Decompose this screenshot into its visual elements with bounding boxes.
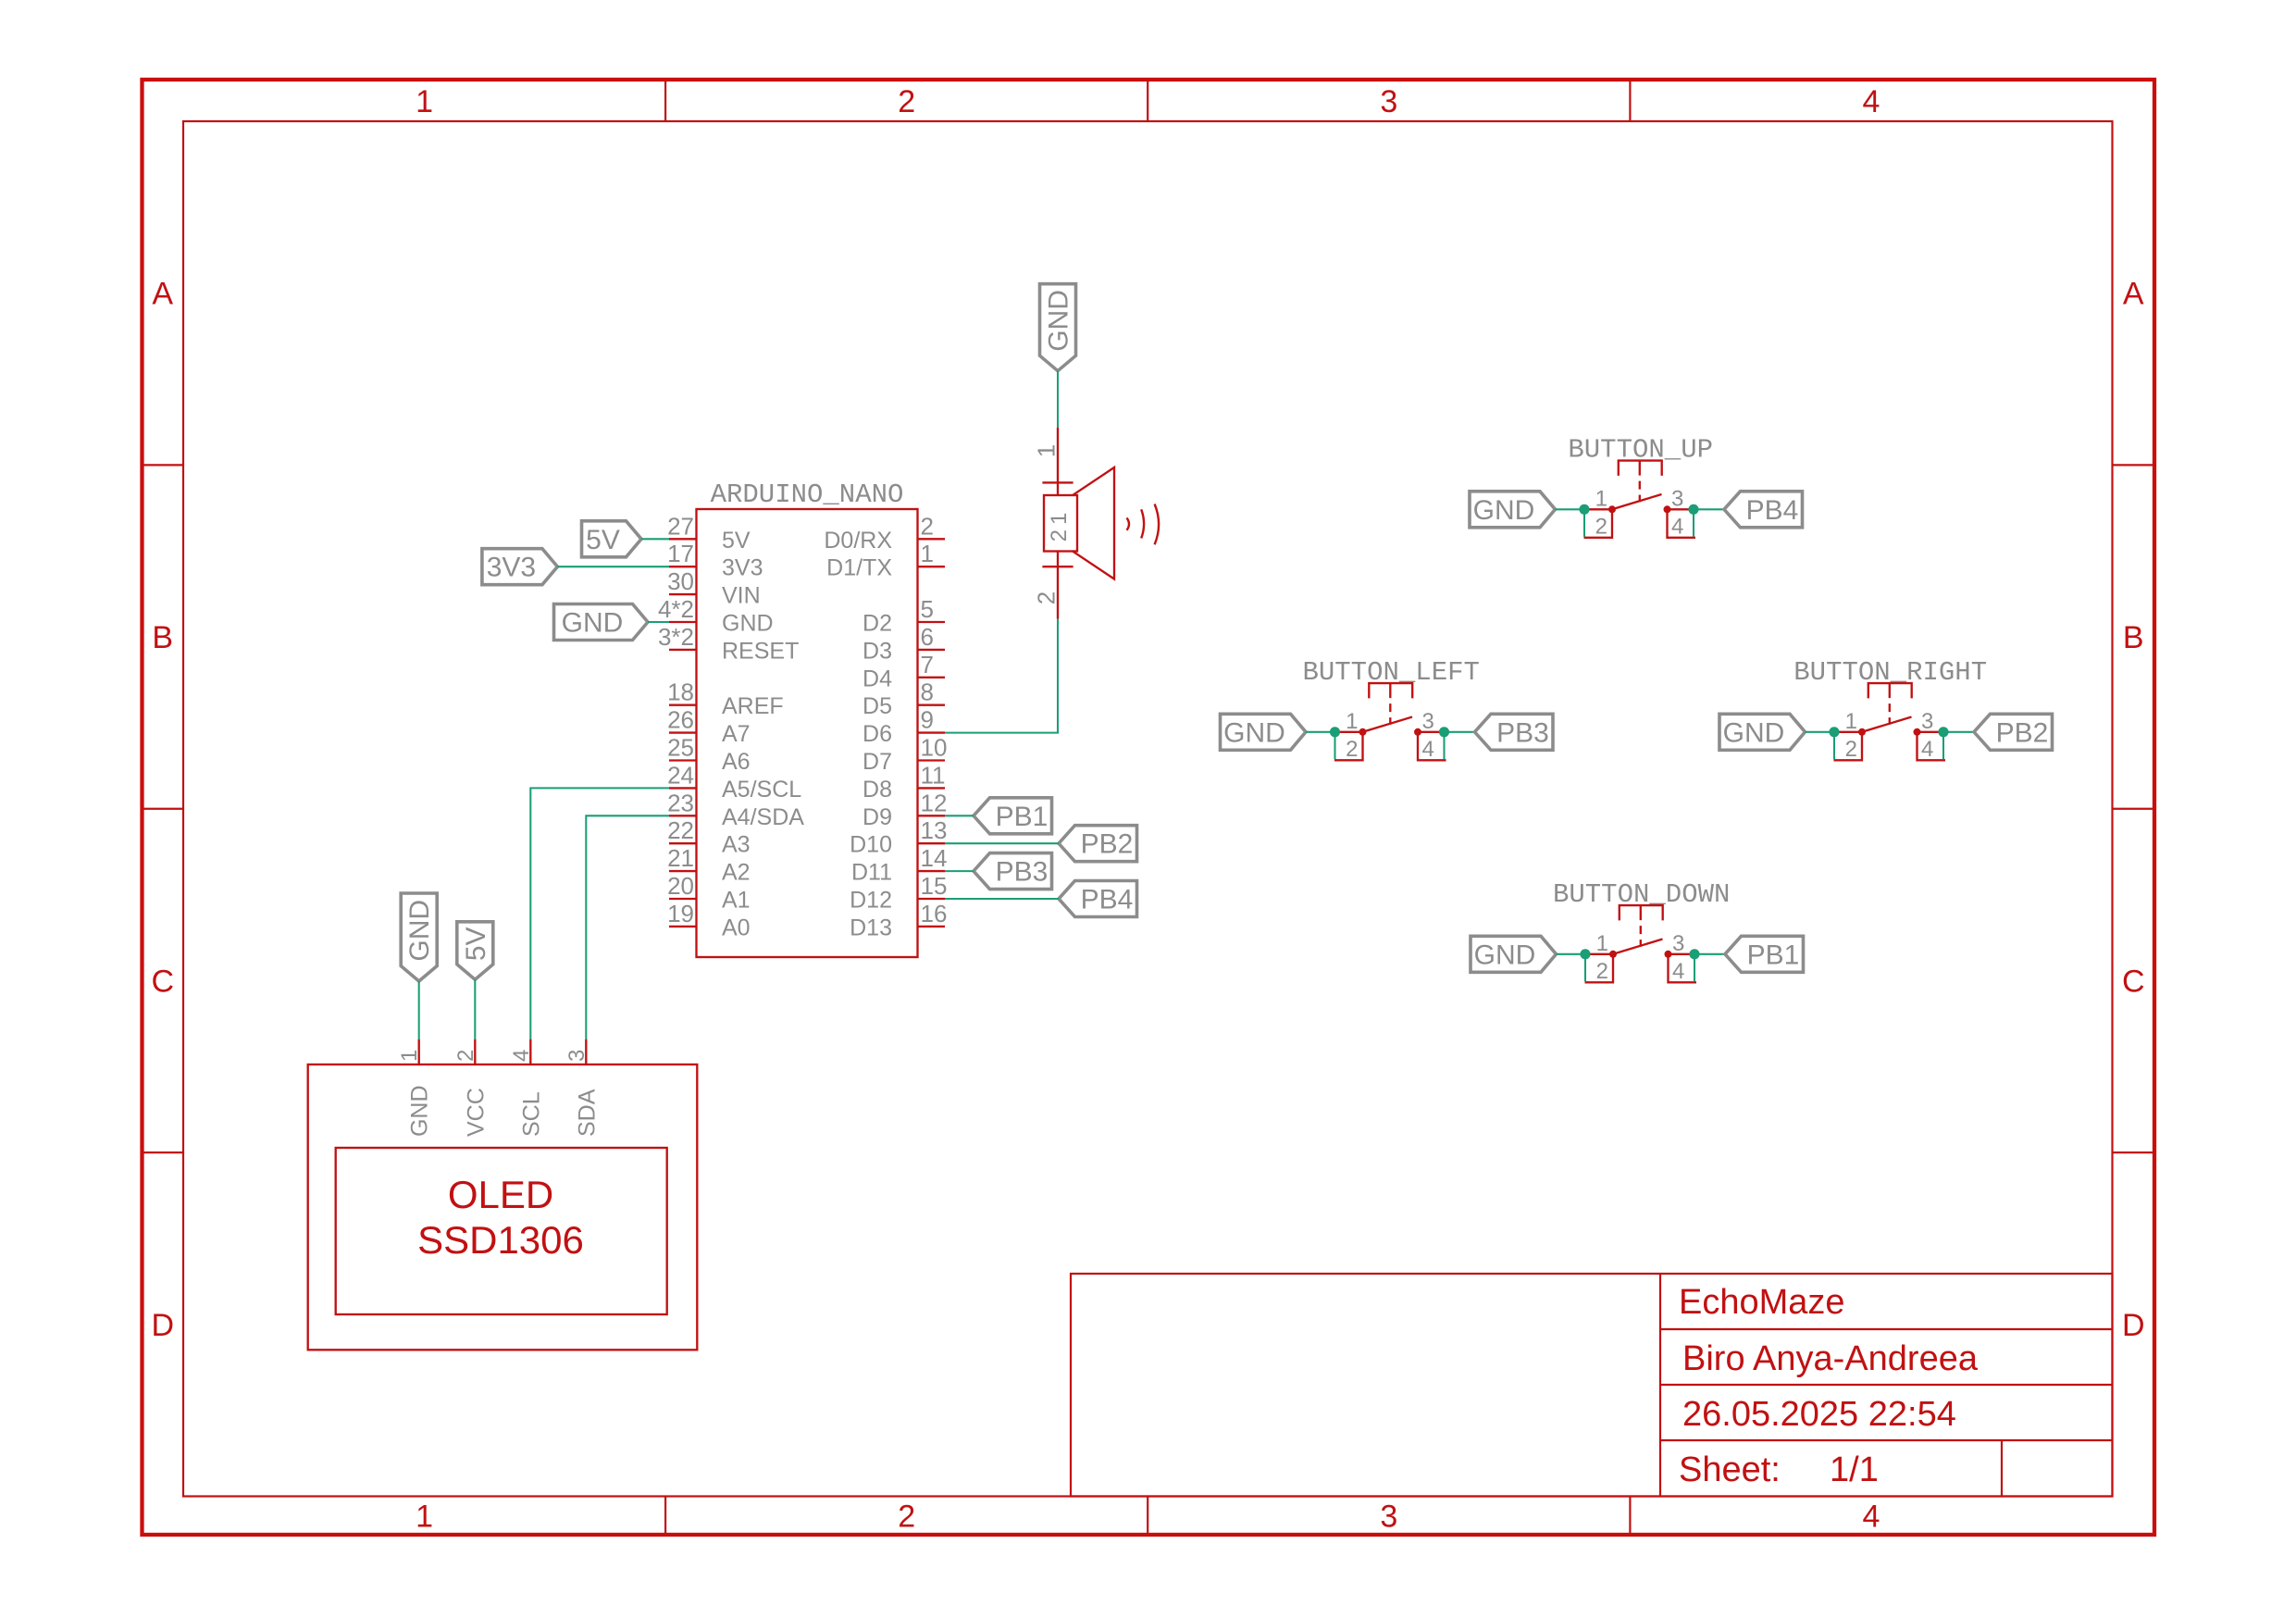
BUTTON_LEFT lever [1363, 717, 1413, 732]
arduino pin 18 AREF [669, 704, 697, 706]
junction BUTTON_DOWN pin 3 [1665, 951, 1672, 958]
arduino pin 2 D0/RX [918, 538, 946, 540]
BUTTON_RIGHT pin 1 [1834, 731, 1862, 733]
svg-text:C: C [2122, 964, 2145, 999]
wire GND to BUTTON_LEFT pin 1 [1306, 731, 1335, 733]
title block [1071, 1274, 2113, 1497]
wire GND to pin 4*2 [648, 621, 669, 623]
svg-text:3: 3 [1671, 486, 1683, 511]
svg-text:21: 21 [667, 844, 694, 872]
BUTTON_UP pin 3 [1668, 508, 1694, 510]
svg-text:AREF: AREF [722, 693, 784, 719]
svg-text:PB2: PB2 [1996, 717, 2049, 748]
svg-text:SSD1306: SSD1306 [417, 1218, 584, 1262]
svg-text:15: 15 [921, 872, 948, 900]
svg-text:17: 17 [667, 540, 694, 567]
svg-text:26.05.2025 22:54: 26.05.2025 22:54 [1682, 1395, 1956, 1434]
svg-text:3*2: 3*2 [658, 623, 694, 651]
svg-text:VCC: VCC [463, 1088, 489, 1137]
svg-text:ARDUINO_NANO: ARDUINO_NANO [711, 479, 904, 510]
svg-text:26: 26 [667, 706, 694, 734]
junction BUTTON_LEFT pin 1 [1359, 728, 1367, 736]
junction BUTTON_RIGHT pin 3 [1914, 728, 1921, 736]
arduino pin 17 3V3 [669, 566, 697, 567]
wire 5V to OLED pin 2 [474, 979, 476, 1039]
node BUTTON_LEFT GND side [1330, 727, 1340, 737]
ground flag GND BUTTON_LEFT [1221, 714, 1307, 750]
wire 5V to pin 27 [641, 538, 669, 540]
svg-text:B: B [152, 620, 173, 655]
svg-text:SDA: SDA [574, 1089, 600, 1137]
svg-text:18: 18 [667, 678, 694, 706]
svg-text:1: 1 [1595, 486, 1607, 511]
wire D11 to PB3 [945, 870, 974, 872]
svg-text:10: 10 [921, 734, 948, 762]
svg-text:4: 4 [1422, 737, 1434, 762]
svg-text:D10: D10 [850, 832, 892, 858]
svg-text:GND: GND [1223, 717, 1285, 748]
svg-text:1/1: 1/1 [1830, 1450, 1879, 1489]
svg-text:2: 2 [1032, 591, 1060, 604]
wire A4/SDA to OLED SDA [586, 815, 669, 1039]
arduino pin 14 D11 [918, 870, 946, 872]
wire BUTTON_RIGHT to PB2 [1942, 732, 1944, 760]
svg-text:PB1: PB1 [1747, 940, 1800, 970]
wire BUTTON_UP to PB4 [1693, 509, 1694, 537]
speaker body [1044, 495, 1077, 552]
svg-text:3: 3 [1921, 709, 1933, 734]
svg-text:30: 30 [667, 567, 694, 595]
svg-text:23: 23 [667, 789, 694, 816]
wire D9 to PB1 [945, 815, 974, 816]
wire BUTTON_DOWN to PB1 [1694, 954, 1695, 982]
arduino pin 4*2 GND [669, 621, 697, 623]
svg-text:A5/SCL: A5/SCL [722, 777, 801, 803]
svg-text:D: D [2122, 1308, 2145, 1343]
wire GND to OLED pin 1 [418, 981, 420, 1039]
svg-text:4: 4 [1862, 84, 1880, 119]
svg-text:GND: GND [1723, 717, 1785, 748]
svg-text:D: D [151, 1308, 174, 1343]
arduino pin 21 A2 [669, 870, 697, 872]
arduino pin 25 A6 [669, 759, 697, 761]
wire D10 to PB2 [945, 842, 1059, 844]
arduino pin 1 D1/TX [918, 566, 946, 567]
svg-text:5V: 5V [461, 927, 491, 961]
node BUTTON_LEFT PB3 side [1439, 727, 1449, 737]
arduino pin 20 A1 [669, 898, 697, 900]
ground flag GND BUTTON_UP [1470, 492, 1556, 528]
svg-text:4: 4 [1862, 1500, 1880, 1535]
BUTTON_UP pin 4 strap [1668, 509, 1696, 538]
net flag PB1 [974, 798, 1052, 834]
svg-text:D1/TX: D1/TX [826, 555, 892, 581]
svg-text:D9: D9 [863, 804, 892, 830]
svg-text:VIN: VIN [722, 583, 761, 609]
svg-text:EchoMaze: EchoMaze [1679, 1283, 1845, 1322]
supply flag 5V oled [457, 922, 493, 980]
BUTTON_DOWN pin 4 strap [1669, 954, 1697, 983]
OLED pin 2 VCC [474, 1039, 476, 1064]
svg-text:A3: A3 [722, 832, 751, 858]
svg-text:A: A [152, 277, 173, 312]
BUTTON_LEFT pin 1 [1335, 731, 1363, 733]
svg-text:D13: D13 [850, 915, 892, 940]
arduino pin 22 A3 [669, 842, 697, 844]
node BUTTON_DOWN PB1 side [1689, 949, 1699, 959]
svg-text:C: C [151, 964, 174, 999]
svg-text:2: 2 [898, 84, 915, 119]
BUTTON_RIGHT pin 4 strap [1917, 732, 1946, 761]
svg-text:B: B [2123, 620, 2144, 655]
svg-text:RESET: RESET [722, 638, 799, 664]
svg-text:24: 24 [667, 761, 694, 789]
arduino pin 12 D9 [918, 815, 946, 816]
arduino pin 6 D3 [918, 649, 946, 651]
net flag PB1 [1725, 936, 1804, 972]
svg-text:5V: 5V [722, 528, 751, 554]
svg-text:20: 20 [667, 872, 694, 900]
svg-text:1: 1 [921, 540, 934, 567]
svg-text:Sheet:: Sheet: [1679, 1450, 1781, 1489]
BUTTON_UP lever [1612, 494, 1662, 509]
arduino pin 30 VIN [669, 593, 697, 595]
ground flag GND oled [401, 893, 437, 981]
junction BUTTON_RIGHT pin 1 [1858, 728, 1866, 736]
wire GND to BUTTON_UP pin 1 [1556, 508, 1585, 510]
net flag PB2 [1059, 826, 1137, 862]
node BUTTON_UP GND side [1579, 504, 1589, 515]
arduino pin 24 A5/SCL [669, 787, 697, 789]
arduino pin 13 D10 [918, 842, 946, 844]
junction BUTTON_UP pin 1 [1608, 505, 1616, 513]
svg-text:1: 1 [1596, 931, 1608, 956]
arduino U1 ARDUINO_NANO body [697, 509, 918, 957]
svg-text:12: 12 [921, 789, 948, 816]
OLED pin 4 SCL [529, 1039, 531, 1064]
svg-text:A7: A7 [722, 721, 751, 747]
svg-text:D11: D11 [851, 860, 892, 886]
arduino pin 8 D5 [918, 704, 946, 706]
svg-text:2: 2 [898, 1500, 915, 1535]
svg-text:3: 3 [1380, 84, 1397, 119]
svg-text:4: 4 [1921, 737, 1933, 762]
svg-text:19: 19 [667, 900, 694, 927]
svg-text:3: 3 [565, 1050, 590, 1062]
svg-text:5: 5 [921, 595, 934, 623]
svg-text:3: 3 [1380, 1500, 1397, 1535]
svg-text:2: 2 [1595, 514, 1607, 539]
speaker pin 2 [1057, 552, 1059, 619]
svg-text:OLED: OLED [448, 1173, 553, 1216]
svg-text:22: 22 [667, 816, 694, 844]
arduino pin 10 D7 [918, 759, 946, 761]
svg-text:GND: GND [407, 1085, 433, 1137]
svg-text:PB4: PB4 [1746, 495, 1799, 526]
svg-text:A2: A2 [722, 860, 751, 886]
BUTTON_RIGHT lever [1862, 717, 1912, 732]
svg-text:3V3: 3V3 [722, 555, 763, 581]
svg-text:SCL: SCL [518, 1091, 544, 1137]
wire D6 to speaker pin 2 [945, 619, 1058, 733]
node BUTTON_RIGHT PB2 side [1938, 727, 1948, 737]
svg-text:21: 21 [1047, 508, 1072, 542]
node BUTTON_UP PB4 side [1688, 504, 1698, 515]
svg-text:11: 11 [921, 761, 946, 789]
wire 3V3 to pin 17 [557, 566, 669, 567]
svg-text:3: 3 [1422, 709, 1434, 734]
svg-text:A: A [2123, 277, 2144, 312]
arduino pin 7 D4 [918, 677, 946, 678]
svg-text:4: 4 [1671, 514, 1683, 539]
junction BUTTON_DOWN pin 1 [1609, 951, 1617, 958]
node BUTTON_DOWN GND side [1580, 949, 1590, 959]
svg-text:7: 7 [921, 651, 934, 678]
svg-text:D3: D3 [863, 638, 892, 664]
supply flag 3V3 [482, 549, 558, 585]
ground flag GND arduino [554, 604, 649, 641]
OLED SSD1306 display body [308, 1064, 698, 1350]
svg-text:6: 6 [921, 623, 934, 651]
net flag PB4 [1059, 881, 1137, 917]
svg-text:D2: D2 [863, 611, 892, 637]
svg-text:27: 27 [667, 512, 694, 540]
arduino pin 26 A7 [669, 731, 697, 733]
svg-text:8: 8 [921, 678, 934, 706]
svg-text:16: 16 [921, 900, 948, 927]
ground flag GND BUTTON_DOWN [1471, 936, 1557, 972]
BUTTON_LEFT pin 3 [1418, 731, 1445, 733]
svg-text:GND: GND [404, 900, 435, 962]
svg-text:A4/SDA: A4/SDA [722, 804, 804, 830]
wire A5/SCL to OLED SCL [530, 788, 669, 1039]
ground flag GND speaker [1040, 284, 1076, 371]
node BUTTON_RIGHT GND side [1829, 727, 1839, 737]
svg-text:2: 2 [453, 1050, 478, 1062]
speaker sound waves [1127, 518, 1130, 530]
svg-text:1: 1 [1032, 444, 1060, 457]
wire GND to speaker pin 1 [1057, 371, 1059, 428]
wire GND to BUTTON_DOWN pin 1 [1557, 953, 1586, 955]
BUTTON_LEFT pin 2 strap [1334, 732, 1363, 761]
BUTTON_UP pin 1 [1584, 508, 1612, 510]
svg-text:2: 2 [1845, 737, 1857, 762]
svg-text:PB4: PB4 [1081, 885, 1134, 915]
svg-text:A1: A1 [722, 888, 751, 914]
OLED pin 1 GND [418, 1039, 420, 1064]
junction BUTTON_UP pin 3 [1664, 505, 1671, 513]
net flag PB3 [974, 853, 1052, 890]
svg-text:PB3: PB3 [996, 857, 1049, 888]
BUTTON_DOWN lever [1613, 940, 1663, 954]
svg-text:D4: D4 [863, 666, 892, 691]
svg-text:14: 14 [921, 844, 948, 872]
svg-text:GND: GND [1044, 290, 1074, 352]
svg-text:1: 1 [1346, 709, 1358, 734]
arduino pin 5 D2 [918, 621, 946, 623]
arduino pin 27 5V [669, 538, 697, 540]
svg-text:PB3: PB3 [1496, 717, 1549, 748]
svg-text:PB1: PB1 [996, 802, 1049, 832]
svg-text:GND: GND [1473, 495, 1535, 526]
svg-text:3V3: 3V3 [487, 553, 536, 583]
net flag PB4 [1724, 492, 1803, 528]
svg-text:A0: A0 [722, 915, 751, 940]
wire BUTTON_LEFT to PB3 [1443, 732, 1445, 760]
BUTTON_UP pin 2 strap [1584, 509, 1613, 538]
svg-text:D0/RX: D0/RX [824, 528, 892, 554]
svg-text:2: 2 [1346, 737, 1358, 762]
arduino pin 23 A4/SDA [669, 815, 697, 816]
svg-text:GND: GND [1474, 940, 1536, 970]
svg-text:PB2: PB2 [1081, 829, 1134, 860]
BUTTON_RIGHT pin 3 [1917, 731, 1944, 733]
supply flag 5V [582, 521, 642, 557]
svg-text:5V: 5V [586, 525, 620, 555]
arduino pin 19 A0 [669, 926, 697, 927]
svg-text:2: 2 [1596, 959, 1608, 984]
svg-text:1: 1 [416, 84, 433, 119]
svg-text:A6: A6 [722, 749, 751, 775]
net flag PB2 [1974, 714, 2053, 750]
arduino pin 9 D6 [918, 731, 946, 733]
svg-text:GND: GND [722, 611, 774, 637]
svg-text:3: 3 [1672, 931, 1684, 956]
BUTTON_DOWN pin 2 strap [1585, 954, 1614, 983]
svg-text:D6: D6 [863, 721, 892, 747]
arduino pin 15 D12 [918, 898, 946, 900]
arduino pin 3*2 RESET [669, 649, 697, 651]
svg-text:1: 1 [416, 1500, 433, 1535]
wire D12 to PB4 [945, 898, 1059, 900]
svg-text:GND: GND [562, 608, 624, 639]
net flag PB3 [1475, 714, 1554, 750]
svg-text:Biro Anya-Andreea: Biro Anya-Andreea [1682, 1339, 1979, 1378]
ground flag GND BUTTON_RIGHT [1719, 714, 1806, 750]
BUTTON_LEFT pin 4 strap [1418, 732, 1446, 761]
arduino pin 16 D13 [918, 926, 946, 927]
svg-text:25: 25 [667, 734, 694, 762]
wire GND to BUTTON_RIGHT pin 1 [1806, 731, 1835, 733]
svg-text:D12: D12 [850, 888, 892, 914]
svg-text:D7: D7 [863, 749, 892, 775]
svg-text:13: 13 [921, 816, 948, 844]
BUTTON_DOWN pin 3 [1669, 953, 1695, 955]
svg-text:D5: D5 [863, 693, 892, 719]
BUTTON_DOWN pin 1 [1585, 953, 1613, 955]
svg-text:4: 4 [1672, 959, 1684, 984]
svg-text:D8: D8 [863, 777, 892, 803]
BUTTON_RIGHT pin 2 strap [1834, 732, 1863, 761]
svg-text:4: 4 [509, 1050, 534, 1062]
svg-text:2: 2 [921, 512, 934, 540]
junction BUTTON_LEFT pin 3 [1414, 728, 1421, 736]
OLED pin 3 SDA [585, 1039, 587, 1064]
svg-text:1: 1 [397, 1050, 422, 1062]
svg-text:1: 1 [1845, 709, 1857, 734]
arduino pin 11 D8 [918, 787, 946, 789]
svg-text:9: 9 [921, 706, 934, 734]
svg-text:4*2: 4*2 [658, 595, 694, 623]
speaker pin 1 [1057, 428, 1059, 495]
